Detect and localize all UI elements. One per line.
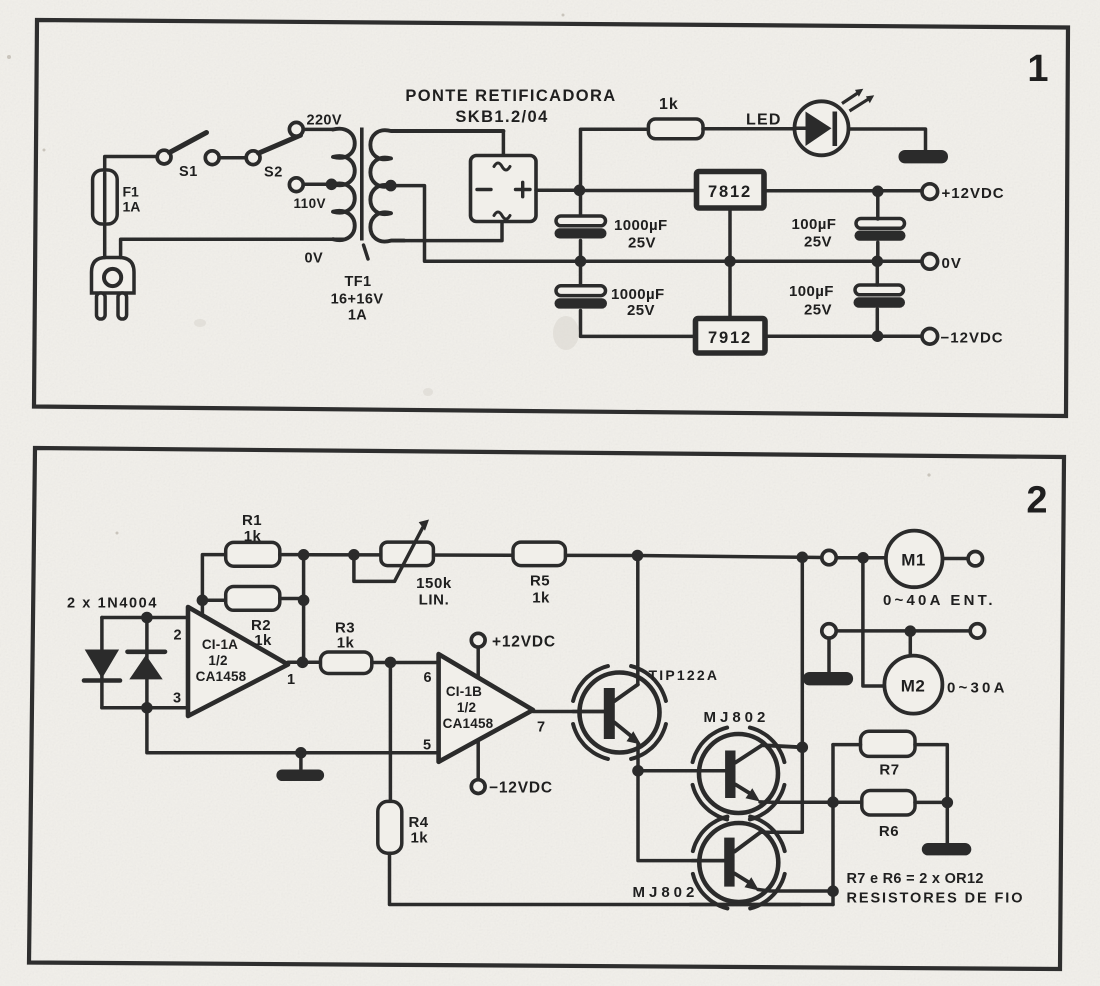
node diode anode junction bbox=[141, 612, 153, 624]
node bridge + junction bbox=[574, 185, 586, 197]
wire TIP collector vertical bbox=[636, 556, 640, 685]
wire pin1 to R3 bbox=[288, 661, 321, 665]
svg-text:1A: 1A bbox=[348, 308, 367, 324]
svg-text:1A: 1A bbox=[123, 199, 141, 215]
wire 1k to LED bbox=[703, 127, 795, 131]
node rail R5 right junction bbox=[632, 550, 644, 562]
wire plug to fuse to S1 bbox=[105, 157, 157, 258]
node R2 left junction bbox=[197, 595, 209, 607]
node rail M junction bbox=[797, 552, 809, 564]
node ground junction pin5 bbox=[295, 747, 307, 759]
transistor Q3 MJ802 bbox=[690, 817, 833, 909]
svg-text:0V: 0V bbox=[942, 255, 962, 272]
wire pin2 top rail bbox=[102, 616, 188, 620]
svg-text:25V: 25V bbox=[628, 235, 656, 252]
svg-text:RESISTORES DE FIO: RESISTORES DE FIO bbox=[847, 891, 1025, 907]
svg-text:25V: 25V bbox=[804, 302, 832, 319]
regulator 7912 bbox=[696, 319, 766, 354]
wire row2 bbox=[836, 629, 970, 633]
node diode cathode junction bbox=[141, 702, 153, 714]
wire R1 R2 right junction vertical to pin1 bbox=[280, 555, 304, 663]
node R1 right bbox=[298, 549, 310, 561]
transistor Q1 TIP122A bbox=[573, 666, 666, 759]
wire R4 branch vertical bbox=[389, 662, 393, 801]
svg-text:CI-1B: CI-1B bbox=[446, 684, 482, 699]
wire pin5 line from diodes bbox=[147, 708, 439, 753]
svg-text:1k: 1k bbox=[337, 635, 355, 652]
LED light arrows bbox=[842, 89, 874, 111]
terminal M1 right bbox=[968, 552, 982, 566]
switch S2 contacts and wire bbox=[205, 151, 219, 165]
svg-text:100µF: 100µF bbox=[789, 283, 834, 300]
wire secondary top to bridge bbox=[502, 131, 506, 155]
svg-text:R5: R5 bbox=[530, 573, 550, 590]
svg-text:220V: 220V bbox=[307, 113, 342, 129]
svg-text:−12VDC: −12VDC bbox=[489, 780, 553, 797]
terminal 0V bbox=[922, 254, 938, 270]
node 0V left junction bbox=[575, 255, 587, 267]
wire right collector vertical bbox=[761, 557, 803, 832]
svg-text:150k: 150k bbox=[416, 575, 452, 592]
svg-text:LIN.: LIN. bbox=[419, 592, 450, 609]
svg-text:110V: 110V bbox=[294, 196, 326, 211]
svg-text:7912: 7912 bbox=[708, 329, 752, 347]
svg-text:R7 e R6 = 2 x OR12: R7 e R6 = 2 x OR12 bbox=[847, 871, 984, 887]
svg-text:3: 3 bbox=[173, 691, 181, 707]
node R6 right junction bbox=[942, 797, 954, 809]
node R2 right bbox=[298, 595, 310, 607]
capacitor C1 1000uF 25V bbox=[555, 216, 607, 239]
svg-text:CA1458: CA1458 bbox=[443, 716, 494, 731]
wire secondary tap to 0V rail bbox=[395, 186, 923, 262]
transformer TF1 secondary winding bbox=[370, 130, 503, 241]
svg-text:0~30A: 0~30A bbox=[947, 680, 1008, 697]
node +12 cap junction bbox=[872, 186, 884, 198]
svg-text:7: 7 bbox=[537, 720, 545, 736]
svg-text:R7: R7 bbox=[879, 762, 899, 779]
svg-text:R4: R4 bbox=[409, 814, 429, 831]
terminal +12VDC bbox=[922, 184, 938, 200]
resistor R7 bbox=[861, 731, 916, 756]
transistor Q2 MJ802 bbox=[692, 728, 833, 820]
wire TIP emitter down and MJ base wires bbox=[638, 744, 725, 861]
node MJ802 collector junction bbox=[797, 742, 809, 754]
wire pin7 to TIP base bbox=[533, 710, 604, 714]
svg-text:1/2: 1/2 bbox=[208, 653, 227, 668]
node regulator 0V junction bbox=[724, 255, 736, 267]
wire M2 left branch bbox=[863, 562, 885, 686]
svg-text:TIP122A: TIP122A bbox=[649, 667, 720, 683]
terminal post left bbox=[822, 550, 836, 564]
wire -12 rail bbox=[766, 334, 923, 338]
svg-text:SKB1.2/04: SKB1.2/04 bbox=[455, 108, 548, 126]
terminal 220V bbox=[289, 122, 303, 136]
transformer TF1 primary winding bbox=[333, 129, 355, 240]
svg-text:0~40A ENT.: 0~40A ENT. bbox=[883, 592, 996, 609]
capacitor C4 100uF 25V bbox=[854, 261, 906, 336]
wire pin3 bottom rail bbox=[102, 706, 189, 710]
svg-text:25V: 25V bbox=[804, 234, 832, 251]
svg-text:CA1458: CA1458 bbox=[196, 669, 247, 684]
svg-text:R6: R6 bbox=[879, 823, 899, 840]
wire R7 leads bbox=[833, 745, 947, 843]
svg-text:25V: 25V bbox=[627, 302, 655, 319]
node primary tap bbox=[326, 179, 338, 191]
svg-text:7812: 7812 bbox=[708, 183, 752, 201]
svg-text:16+16V: 16+16V bbox=[331, 292, 384, 308]
terminal -12VDC bbox=[922, 329, 938, 345]
svg-text:+12VDC: +12VDC bbox=[942, 185, 1005, 202]
op-amp U1A CI-1A bbox=[188, 607, 288, 716]
wire secondary bottom to bridge bbox=[391, 223, 502, 241]
diode D1 1N4004 bbox=[84, 650, 120, 681]
svg-text:1k: 1k bbox=[532, 590, 550, 607]
wire R6 leads bbox=[833, 800, 947, 804]
svg-text:F1: F1 bbox=[123, 184, 140, 200]
svg-text:1/2: 1/2 bbox=[457, 700, 476, 715]
wire R4 bottom feedback bbox=[390, 853, 834, 904]
svg-text:+12VDC: +12VDC bbox=[492, 634, 556, 651]
svg-text:TF1: TF1 bbox=[345, 274, 372, 290]
svg-text:2 x 1N4004: 2 x 1N4004 bbox=[67, 596, 158, 612]
figure frame 1 bbox=[34, 20, 1068, 416]
svg-text:6: 6 bbox=[423, 670, 431, 686]
resistor R1 bbox=[226, 542, 280, 566]
mains plug P1 bbox=[92, 258, 135, 320]
wire vertical through capacitors to -12 rail bbox=[581, 190, 696, 336]
wire feedback vertical to R1 R2 bbox=[202, 555, 225, 615]
core pointer line bbox=[364, 245, 369, 259]
svg-text:1k: 1k bbox=[244, 528, 262, 545]
LED D3 bbox=[795, 101, 926, 155]
node R6 left junction bbox=[827, 796, 839, 808]
terminal -12VDC op-amp supply bbox=[471, 780, 485, 794]
wire +12 rail bbox=[584, 189, 923, 193]
svg-text:MJ802: MJ802 bbox=[633, 884, 699, 901]
terminal 110V bbox=[289, 178, 303, 192]
capacitor C2 1000uF 25V bbox=[555, 286, 608, 309]
wire 0V bottom rail to plug bbox=[121, 239, 345, 257]
node MJ802 emitter junction bbox=[827, 885, 839, 897]
svg-text:CI-1A: CI-1A bbox=[202, 637, 238, 652]
figure frame 2 bbox=[29, 448, 1064, 969]
ground (R6 R7) bbox=[922, 843, 972, 855]
ground (LED) bbox=[899, 150, 949, 163]
wire diode middle branch bbox=[145, 618, 149, 708]
svg-text:1: 1 bbox=[287, 672, 295, 688]
resistor R5 bbox=[513, 542, 565, 566]
svg-text:1k: 1k bbox=[411, 830, 429, 847]
svg-text:PONTE RETIFICADORA: PONTE RETIFICADORA bbox=[405, 87, 616, 105]
node TIP emitter junction bbox=[632, 765, 644, 777]
resistor 1k (LED) bbox=[648, 119, 703, 139]
op-amp U1B CI-1B bbox=[439, 654, 533, 762]
transformer core bbox=[360, 128, 364, 241]
svg-text:LED: LED bbox=[746, 112, 782, 129]
node pin1 output bbox=[297, 657, 309, 669]
wire main positive vertical with corner to 1k bbox=[581, 129, 649, 190]
svg-text:2: 2 bbox=[173, 628, 181, 644]
resistor R3 bbox=[321, 652, 372, 674]
scan smudges (decorative) bbox=[194, 316, 579, 396]
svg-text:0V: 0V bbox=[305, 251, 324, 267]
node R3 right junction bbox=[385, 657, 397, 669]
wire bridge + output bbox=[536, 189, 579, 193]
wire top rail panel2 bbox=[304, 555, 968, 559]
resistor R6 bbox=[862, 791, 915, 816]
terminal post row2 right bbox=[970, 624, 984, 638]
resistor R4 bbox=[378, 801, 402, 853]
wire R3 to pin6 bbox=[372, 661, 439, 665]
potentiometer 150k LIN bbox=[354, 520, 434, 582]
meter M2 bbox=[884, 656, 942, 714]
switch S1 bbox=[157, 150, 171, 164]
svg-text:1000µF: 1000µF bbox=[614, 217, 668, 234]
bridge rectifier SKB1.2/04 bbox=[471, 156, 537, 222]
node 0V right junction bbox=[872, 255, 884, 267]
svg-text:−12VDC: −12VDC bbox=[941, 330, 1004, 347]
svg-text:1k: 1k bbox=[659, 96, 679, 113]
svg-text:2: 2 bbox=[1026, 480, 1047, 522]
svg-text:S1: S1 bbox=[179, 164, 198, 180]
regulator 7812 bbox=[697, 172, 765, 209]
wire diode left branch bbox=[100, 618, 104, 708]
node M2 top junction bbox=[905, 625, 917, 637]
node rail R1 junction bbox=[348, 549, 360, 561]
svg-text:1000µF: 1000µF bbox=[611, 286, 665, 303]
ground (meter row) bbox=[827, 638, 831, 671]
capacitor C3 100uF 25V bbox=[855, 191, 906, 261]
svg-text:100µF: 100µF bbox=[792, 216, 837, 233]
node M1 left junction bbox=[857, 552, 869, 564]
svg-text:1: 1 bbox=[1027, 48, 1048, 90]
wire R6 node vertical bbox=[831, 745, 835, 905]
svg-text:M2: M2 bbox=[901, 677, 926, 696]
fuse F1 bbox=[93, 170, 118, 224]
terminal +12VDC op-amp supply bbox=[471, 633, 485, 647]
wire 7812 to 0V to 7912 bbox=[728, 209, 732, 319]
svg-text:S2: S2 bbox=[264, 165, 283, 181]
resistor R2 bbox=[226, 587, 280, 611]
diode D2 1N4004 bbox=[128, 652, 166, 680]
meter M1 bbox=[886, 531, 943, 588]
svg-text:M1: M1 bbox=[901, 551, 926, 570]
ground (op-amp) bbox=[299, 753, 303, 769]
svg-text:MJ802: MJ802 bbox=[704, 709, 770, 726]
svg-text:1k: 1k bbox=[254, 632, 272, 649]
node secondary tap bbox=[385, 180, 397, 192]
terminal post row2 left bbox=[822, 624, 836, 638]
svg-text:R1: R1 bbox=[242, 512, 262, 529]
node -12 cap junction bbox=[872, 330, 884, 342]
